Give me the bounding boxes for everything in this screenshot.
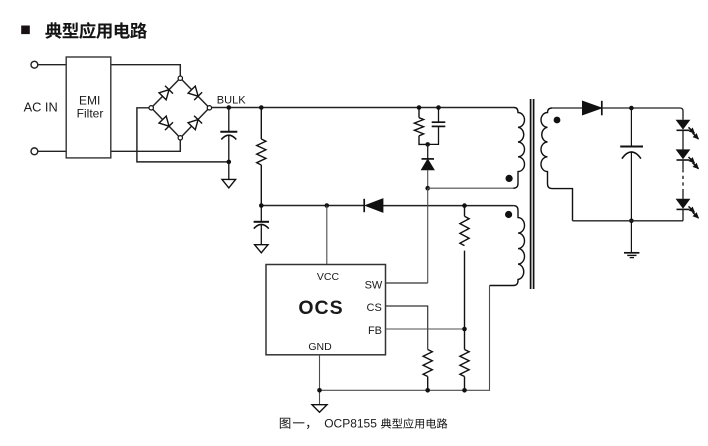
node FB-R rail dot: [462, 388, 467, 393]
resistor R3 (CS sense): [423, 350, 432, 391]
wire bottom ground rail: [320, 286, 490, 391]
AC input terminal bottom: [31, 148, 38, 155]
wire SW vertical: [427, 188, 429, 283]
wire LED2 down + dashed segment: [682, 160, 684, 169]
svg-text:SW: SW: [365, 279, 383, 291]
wire snubber to clamp diode: [427, 144, 429, 159]
svg-text:OCS: OCS: [298, 297, 343, 319]
node snubber bottom dot: [425, 142, 430, 147]
transformer T1 auxiliary winding: [490, 206, 525, 286]
LED string wire + LED1: [676, 120, 691, 130]
svg-text:EMI: EMI: [79, 93, 100, 107]
wire LED1 to LED2: [682, 130, 684, 149]
ground (VCC cap): [255, 245, 268, 253]
bridge edge bottom-left: [153, 109, 179, 136]
wire SW pin: [386, 282, 428, 284]
snubber: node C top dot: [436, 105, 441, 110]
bridge edge top-left: [153, 80, 179, 106]
diode D5 (aux to VCC, cathode left): [364, 199, 383, 212]
bridge edge bottom-right: [182, 109, 208, 136]
capacitor C3 snubber: [428, 108, 446, 145]
svg-text:FB: FB: [368, 325, 382, 337]
wire bridge left vertex to bulk cap bottom (DC minus): [137, 108, 229, 162]
wire GND pin down: [319, 355, 321, 405]
snubber: node R top dot: [417, 105, 422, 110]
svg-text:OCP8155: OCP8155: [324, 417, 377, 431]
LED3: [676, 199, 691, 209]
bridge diode D1 (left to top): [159, 86, 173, 100]
transformer T1 secondary winding: [541, 108, 573, 221]
bridge vertex left: [149, 106, 153, 110]
resistor R1 startup (BULK to VCC): [257, 108, 266, 206]
wire primary bottom: [428, 187, 514, 189]
output capacitor C4: [620, 108, 643, 252]
wire bridge right vertex to main rail: [212, 107, 514, 109]
AC input terminal top: [31, 61, 38, 68]
bridge diode D2 (top to right): [188, 86, 202, 100]
node aux divider top dot: [462, 203, 467, 208]
node start-resistor top dot: [259, 105, 264, 110]
svg-text:BULK: BULK: [217, 94, 246, 106]
title bullet: [21, 26, 30, 35]
chip U1 OCS box: [266, 265, 386, 355]
node VCC-pin junction dot: [325, 203, 330, 208]
wire AC bottom terminal to EMI: [38, 150, 66, 152]
ground (bulk): [222, 179, 236, 188]
wire aux line (diode anode to aux winding): [383, 205, 513, 207]
wire CS pin to R3: [386, 306, 428, 350]
VCC capacitor C2: [254, 206, 269, 245]
transformer T1 primary winding: [513, 108, 524, 189]
EMI filter box: [66, 57, 111, 158]
aux polarity dot: [505, 211, 512, 218]
secondary polarity dot: [554, 117, 561, 124]
LED2: [676, 149, 691, 159]
node FB junction dot: [462, 327, 467, 332]
wire LED3 to bottom rail: [682, 209, 684, 220]
node SW/primary-bottom junction dot: [425, 186, 430, 191]
transformer core lines: [531, 99, 534, 289]
wire EMI top out to bridge top vertex: [111, 65, 181, 76]
wire EMI bottom out to bridge bottom vertex: [111, 140, 181, 151]
wire AC top terminal to EMI: [38, 64, 66, 66]
bridge vertex bottom: [178, 136, 182, 140]
ground (chip GND): [312, 405, 327, 413]
bridge vertex right: [207, 106, 211, 110]
node GND rail dot: [317, 388, 322, 393]
bridge vertex top: [178, 76, 182, 80]
svg-text:Filter: Filter: [77, 107, 104, 121]
caption 图一，OCP8155 典型应用电路 (CJK as paths): [280, 418, 448, 429]
wire VCC rail left segment: [261, 205, 364, 207]
node output cap bottom dot: [629, 219, 634, 224]
bridge diode D3 (left to bottom): [159, 116, 173, 130]
ground (output, 3-bar): [624, 253, 639, 258]
resistor R4 (FB upper divider): [460, 206, 469, 329]
node BULK junction dot: [227, 105, 232, 110]
svg-text:GND: GND: [308, 341, 332, 353]
node VCC-cap junction dot: [259, 203, 264, 208]
node output cap top dot: [629, 106, 634, 111]
title text 典型应用电路 (as paths): [45, 22, 147, 39]
svg-text:AC IN: AC IN: [24, 100, 58, 115]
bridge edge top-right: [182, 80, 208, 106]
diode D6 clamp (cathode up): [422, 159, 435, 170]
wire FB pin: [386, 328, 465, 330]
bridge diode D4 (bottom to right): [188, 116, 202, 130]
svg-text:CS: CS: [367, 302, 382, 314]
diode D7 output rectifier (pointing right): [583, 101, 602, 116]
resistor R2 snubber: [414, 108, 427, 145]
svg-text:VCC: VCC: [317, 271, 340, 283]
wire VCC pin: [326, 206, 328, 265]
wire output top rail: [602, 108, 683, 120]
primary polarity dot: [506, 175, 513, 182]
wire output bottom rail: [573, 220, 684, 222]
bulk capacitor C1: [220, 108, 237, 180]
wire secondary top to output diode: [552, 107, 583, 109]
node CS-R rail dot: [425, 388, 430, 393]
node bulk cap bottom junction: [227, 160, 232, 165]
resistor R5 (FB lower divider): [460, 329, 469, 390]
wire clamp diode to SW node: [427, 170, 429, 188]
